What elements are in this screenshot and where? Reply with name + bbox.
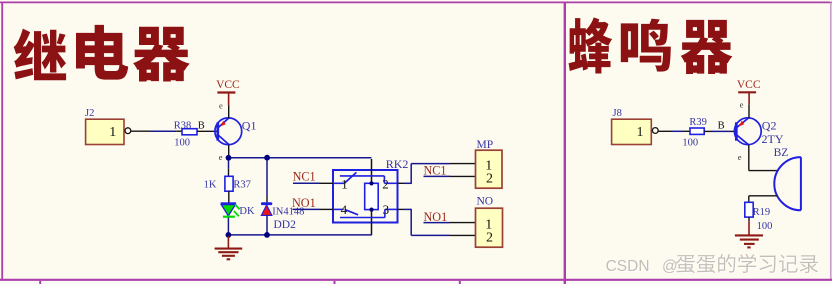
pin e glyph Q1 top bbox=[219, 100, 223, 110]
svg-text:3: 3 bbox=[383, 202, 390, 217]
wire buzzer to R19 bbox=[749, 196, 777, 203]
wire Q1 collector to node bbox=[228, 145, 230, 158]
net label NO1 (relay side) bbox=[292, 196, 333, 210]
wire relay pin3 to NO pin2 bbox=[398, 209, 476, 236]
net label NC1 (MP side) bbox=[424, 164, 476, 178]
diode DD2 bbox=[261, 204, 304, 232]
svg-text:e: e bbox=[738, 152, 742, 162]
svg-text:B: B bbox=[198, 121, 205, 132]
relay coil bbox=[365, 159, 379, 235]
svg-text:DK: DK bbox=[239, 206, 255, 217]
wire R39 to Q2 base bbox=[712, 130, 735, 132]
svg-text:VCC: VCC bbox=[737, 79, 761, 91]
relay RK2 box bbox=[333, 157, 408, 223]
svg-text:NC1: NC1 bbox=[293, 169, 316, 183]
relay contact 4-3 (NO) bbox=[333, 202, 398, 218]
pin e glyph Q2 top bbox=[740, 99, 744, 109]
svg-text:B: B bbox=[718, 121, 725, 132]
transistor Q1 bbox=[215, 118, 257, 145]
svg-text:Q1: Q1 bbox=[242, 118, 257, 132]
svg-text:@: @ bbox=[662, 258, 678, 275]
svg-text:Q2: Q2 bbox=[762, 118, 777, 132]
svg-text:NO: NO bbox=[477, 196, 494, 208]
svg-text:100: 100 bbox=[682, 137, 698, 148]
ground (right) bbox=[735, 221, 763, 247]
wire relay pin2 to MP pin1 bbox=[398, 164, 476, 184]
transistor Q2 bbox=[734, 118, 783, 146]
svg-text:1K: 1K bbox=[204, 180, 217, 191]
svg-text:1: 1 bbox=[637, 125, 644, 140]
svg-text:2: 2 bbox=[382, 176, 389, 191]
relay contact 1-2 (NC) bbox=[333, 172, 398, 191]
svg-text:RK2: RK2 bbox=[386, 157, 409, 171]
svg-text:2: 2 bbox=[486, 171, 493, 186]
resistor R38 bbox=[174, 120, 217, 148]
net label NC1 (relay side) bbox=[293, 169, 333, 183]
power port VCC (right) bbox=[737, 79, 761, 105]
wire VCC to Q1 emitter bbox=[228, 105, 230, 118]
svg-text:R19: R19 bbox=[753, 207, 771, 218]
ground (left) bbox=[215, 236, 243, 259]
wire collector node to relay coil bbox=[226, 155, 372, 161]
wire DD2 to bottom wire bbox=[266, 215, 268, 235]
svg-text:1: 1 bbox=[341, 176, 348, 191]
svg-text:2TY: 2TY bbox=[762, 132, 784, 146]
resistor R39 bbox=[682, 117, 712, 148]
wire node to DD2 bbox=[266, 160, 268, 202]
svg-text:J8: J8 bbox=[613, 108, 622, 119]
svg-text:J2: J2 bbox=[85, 108, 94, 119]
svg-text:R39: R39 bbox=[689, 117, 707, 128]
resistor R37 bbox=[204, 176, 251, 203]
svg-text:e: e bbox=[219, 100, 223, 110]
connector J2 bbox=[85, 108, 131, 145]
pin e glyph Q2 bottom bbox=[738, 152, 742, 162]
connector J8 bbox=[612, 108, 659, 145]
net label NO1 (NO side) bbox=[424, 210, 476, 224]
LED DK bbox=[221, 204, 255, 217]
resistor R19 bbox=[745, 202, 773, 232]
svg-text:R37: R37 bbox=[233, 180, 251, 191]
svg-text:2: 2 bbox=[486, 230, 493, 245]
svg-text:e: e bbox=[740, 99, 744, 109]
svg-text:NC1: NC1 bbox=[424, 164, 447, 178]
wire DK to ground node bbox=[227, 218, 229, 235]
svg-text:VCC: VCC bbox=[216, 79, 240, 91]
pin e glyph Q1 bottom bbox=[219, 152, 223, 162]
svg-text:e: e bbox=[219, 152, 223, 162]
svg-text:BZ: BZ bbox=[774, 147, 789, 159]
svg-text:1: 1 bbox=[109, 125, 116, 140]
wire node to R37 bbox=[228, 160, 230, 176]
svg-text:CSDN: CSDN bbox=[606, 258, 650, 275]
svg-text:4: 4 bbox=[341, 202, 348, 217]
wire Q2 collector to buzzer bbox=[749, 145, 778, 171]
svg-text:DD2: DD2 bbox=[274, 219, 297, 231]
pin label B of Q2 bbox=[718, 121, 725, 132]
title 继电器 bbox=[14, 25, 190, 82]
power port VCC (left) bbox=[216, 79, 240, 105]
wire J2 to R38 bbox=[131, 130, 176, 132]
svg-text:NO1: NO1 bbox=[424, 210, 448, 224]
title 蜂鸣器 bbox=[569, 17, 733, 74]
wire VCC to Q2 emitter bbox=[748, 105, 750, 118]
svg-text:MP: MP bbox=[477, 139, 494, 151]
wire J8 to R39 bbox=[658, 130, 690, 132]
connector NO bbox=[476, 196, 503, 248]
watermark CSDN bbox=[606, 254, 819, 276]
wire bottom return bbox=[226, 232, 372, 238]
connector MP bbox=[476, 139, 503, 188]
svg-text:100: 100 bbox=[174, 138, 190, 149]
svg-text:NO1: NO1 bbox=[292, 196, 316, 210]
pin label B of Q1 bbox=[198, 121, 205, 132]
svg-text:100: 100 bbox=[757, 221, 773, 232]
buzzer BZ bbox=[774, 147, 801, 210]
